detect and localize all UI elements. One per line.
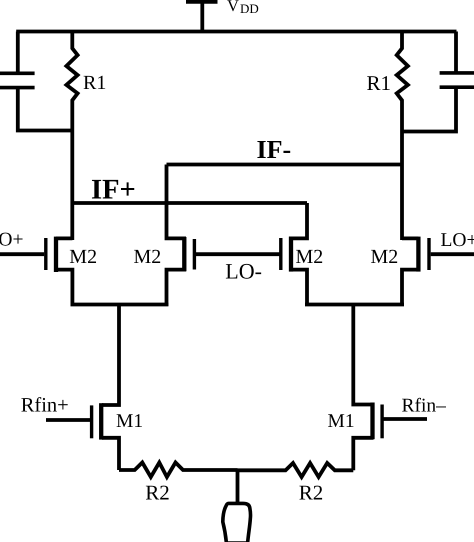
capacitor C-right bottom plate [440, 85, 474, 89]
VDD stem wire [200, 0, 204, 33]
right tail wire to M1 drain [353, 305, 373, 405]
svg-text:LO+: LO+ [441, 230, 474, 251]
svg-text:DD: DD [240, 1, 259, 16]
right cap bottom lead wire [402, 87, 456, 132]
transistor M1 left source lead wire [102, 438, 119, 470]
capacitor C-right top plate [440, 71, 474, 75]
transistor M2 Q4 gate bar [427, 238, 430, 270]
svg-text:M2: M2 [69, 246, 97, 268]
tail current wire [236, 470, 240, 503]
left tail wire to M1 drain [102, 305, 119, 406]
transistor M2 Q3 channel bar [289, 237, 293, 272]
current source symbol [223, 503, 251, 542]
transistor M1 left gate bar [90, 405, 93, 438]
svg-text:LO+: LO+ [0, 230, 24, 251]
top rail wire [16, 30, 456, 34]
transistor M2 (Q3) gate bar [279, 238, 282, 270]
svg-text:R1: R1 [83, 72, 106, 94]
transistor M2 Q2 gate bar [193, 239, 196, 270]
svg-text:M2: M2 [371, 246, 399, 268]
transistor M2 Q1 channel bar [54, 237, 58, 272]
svg-text:LO-: LO- [225, 259, 262, 284]
svg-text:IF+: IF+ [91, 174, 136, 205]
svg-text:R2: R2 [145, 480, 170, 504]
transistor M2 (Q4 rightmost) gate lead wire [431, 252, 474, 256]
transistor M2 Q3 source lead wire [289, 270, 307, 306]
transistor M1 left gate lead wire [46, 418, 92, 422]
resistor R2 right (zigzag wire) [238, 463, 354, 477]
transistor M2 Q2 source lead wire [167, 270, 187, 306]
resistor R2 left (zigzag wire) [119, 463, 238, 478]
transistor M1 right source lead wire [353, 438, 373, 471]
transistor M2 Q3 drain wire to IF+ [289, 203, 307, 238]
node IF- wire [167, 163, 403, 167]
VDD supply bar [186, 0, 218, 4]
left cap top lead wire [16, 32, 20, 76]
transistor M1 right gate bar [380, 405, 383, 439]
node IF+ wire [73, 201, 308, 205]
svg-text:R1: R1 [367, 71, 392, 95]
svg-text:M1: M1 [328, 411, 355, 432]
svg-text:M2: M2 [296, 246, 324, 268]
resistor R1 right (zigzag) with drain wire down [397, 32, 408, 241]
left cap bottom lead wire [18, 87, 73, 131]
transistor M2 Q2 channel bar [182, 237, 186, 271]
svg-text:M1: M1 [116, 411, 143, 432]
transistor M2 Q1 gate bar [44, 238, 47, 270]
transistor M1 left channel bar [99, 403, 103, 439]
capacitor C-left top plate [0, 72, 35, 76]
svg-text:V: V [227, 0, 239, 15]
transistor M2 Q4 channel bar [416, 237, 420, 272]
transistor M2 Q1 source lead wire [56, 270, 72, 306]
transistor M1 right channel bar [370, 403, 374, 440]
common source wire right pair [305, 303, 404, 307]
capacitor C-left bottom plate [0, 86, 35, 90]
resistor R1 left (zigzag) with drain wire down [66, 32, 77, 241]
right cap top lead wire [454, 32, 458, 75]
transistor M1 right gate lead wire [382, 417, 427, 421]
transistor M2 Q4 drain lead wire [402, 236, 418, 240]
svg-text:IF-: IF- [257, 135, 292, 164]
svg-text:Rfin–: Rfin– [402, 396, 447, 417]
svg-text:R2: R2 [299, 481, 324, 505]
svg-text:Rfin+: Rfin+ [21, 395, 69, 417]
svg-text:M2: M2 [134, 246, 162, 268]
transistor M2 Q1 drain lead wire [56, 236, 72, 240]
common source wire left pair [71, 303, 169, 307]
transistor M2 (Q1 leftmost) gate lead wire [0, 252, 44, 256]
transistor M2 (Q2) drain wire to IF- [167, 165, 187, 239]
LO- wire between gates [194, 252, 281, 256]
transistor M2 Q4 source lead wire [402, 270, 418, 306]
